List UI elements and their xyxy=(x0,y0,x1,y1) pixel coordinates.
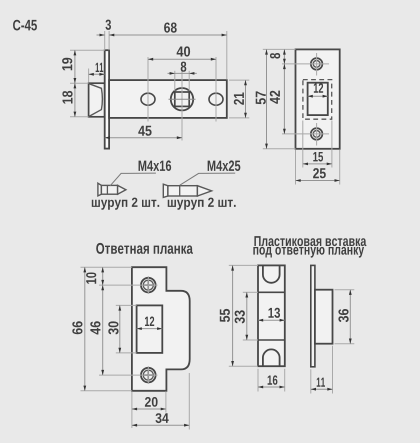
latch body housing xyxy=(109,80,227,118)
dim label 20 xyxy=(145,397,158,407)
label shurup 2 sht right xyxy=(168,198,236,210)
strike top screw hole xyxy=(141,278,156,293)
dim 8 line xyxy=(168,72,197,74)
screw M4x16 tip xyxy=(118,185,126,194)
dim 68 extension line xyxy=(226,31,228,80)
leader line M4x16 xyxy=(110,173,156,186)
right fixing hole (oval) xyxy=(209,93,223,105)
insert divider lower xyxy=(258,339,285,341)
dim 45 line xyxy=(105,137,182,139)
dim 11 line xyxy=(89,73,105,75)
screw M4x25 tip xyxy=(197,186,211,196)
insert side view body box xyxy=(315,290,333,344)
dim 30 line xyxy=(119,305,121,353)
centerline through right hole xyxy=(215,57,217,122)
dim label 8 xyxy=(181,62,187,72)
dim 66 extension lines xyxy=(81,266,132,268)
screw M4x25 head xyxy=(163,184,168,197)
title Plastikovaya vstavka line1 xyxy=(254,236,366,246)
dim label 57 xyxy=(256,91,266,104)
dim 12 arrows (faceplate) xyxy=(308,95,328,97)
dim 10/46 line xyxy=(102,267,104,375)
dim label 13 xyxy=(268,308,280,318)
dim 11 line (insert) xyxy=(311,388,333,390)
screw M4x16 shank xyxy=(101,185,117,194)
insert divider upper xyxy=(258,291,285,293)
dim 36 extension lines xyxy=(335,289,355,291)
insert top notch xyxy=(263,265,280,282)
spindle vertical centerline xyxy=(181,67,183,141)
dim 34 line xyxy=(132,424,189,426)
dim 25 extension lines xyxy=(295,150,297,185)
dim label 18 xyxy=(62,91,72,104)
dim 36 line xyxy=(349,290,351,344)
label shurup 2 sht left xyxy=(92,198,159,210)
dim label 30 xyxy=(108,321,118,334)
dim 16 line xyxy=(258,386,285,388)
dashed cutout region xyxy=(303,80,332,120)
dim 66 line xyxy=(84,267,86,391)
dim 8/42 line (faceplate) xyxy=(283,49,285,133)
dim 57 extension lines xyxy=(263,48,296,50)
dim 55 line xyxy=(232,265,234,366)
dim label 15 xyxy=(313,152,323,162)
spindle horizontal centerline xyxy=(169,98,196,100)
dim 12 arrows (strike) xyxy=(137,328,163,330)
dim label 16 xyxy=(268,375,278,384)
dim 11 extension line xyxy=(88,69,90,83)
dim 30 extension lines xyxy=(116,304,137,306)
screw M4x25 shank xyxy=(168,186,198,196)
dim label 34 xyxy=(156,413,169,423)
insert side view thin plate xyxy=(311,265,315,366)
dim label 45 xyxy=(138,126,151,136)
dim label 10 xyxy=(86,272,96,283)
dim 33 extension lines xyxy=(243,291,258,293)
dim 3 leader+arrow xyxy=(97,34,105,36)
dim 19/18 extension lines xyxy=(70,49,105,51)
dim 15 extension lines xyxy=(302,121,304,168)
label M4x25 xyxy=(208,160,241,171)
strike latch opening xyxy=(137,305,163,353)
dim label 66 xyxy=(72,321,82,334)
dim label 11 xyxy=(96,63,104,72)
dim 13 arrows xyxy=(258,319,285,321)
spindle hub circle xyxy=(171,88,193,110)
faceplate bottom screw hole xyxy=(311,128,323,140)
leader line M4x25 xyxy=(180,173,235,185)
dim label 36 xyxy=(338,309,348,322)
faceplate front view outline xyxy=(296,49,340,148)
dim 57 line xyxy=(266,49,268,148)
title Plastikovaya vstavka line2 xyxy=(253,247,364,258)
dim 21 line xyxy=(245,80,247,118)
dim label 21 xyxy=(234,93,244,105)
latch bolt (beveled) side view xyxy=(89,83,105,117)
dim label 8 (faceplate) xyxy=(270,53,280,59)
bottom hole crosshair xyxy=(316,123,318,146)
left fixing hole (oval) xyxy=(141,93,155,105)
dim label 25 xyxy=(313,168,326,178)
dim 33 line xyxy=(246,292,248,340)
dim label 12 (faceplate) xyxy=(314,83,323,93)
dim 40 line xyxy=(148,58,216,60)
dim label 11 (insert) xyxy=(317,378,325,387)
dim 20 extension lines xyxy=(131,391,133,428)
label M4x16 xyxy=(139,160,172,171)
insert front view outline xyxy=(258,265,285,366)
dim label 42 xyxy=(270,91,280,104)
centerline through left hole xyxy=(147,57,149,122)
dim 20 line xyxy=(132,408,166,410)
dim 16 extension lines xyxy=(257,369,259,392)
faceplate top screw hole xyxy=(311,58,323,70)
latch faceplate edge-on (3mm bar) xyxy=(105,50,109,148)
dim 10/46 extension lines xyxy=(99,284,158,286)
strike plate outline with tab xyxy=(132,267,190,391)
screw M4x16 head xyxy=(98,183,102,196)
dim 21 extension lines xyxy=(229,79,249,81)
dim label 19 xyxy=(62,58,72,70)
latch opening rectangle xyxy=(308,83,328,115)
dim 25 line xyxy=(296,180,340,182)
dim label 40 xyxy=(177,46,191,56)
dim 8 extension lines xyxy=(174,71,176,91)
dim label 3 xyxy=(106,20,112,30)
strike bottom screw hole xyxy=(141,368,156,383)
strike top hole crosshair xyxy=(147,276,149,294)
spindle square hole 8mm xyxy=(175,92,189,106)
dim 11 extension lines (insert) xyxy=(310,369,312,393)
insert bottom notch xyxy=(263,349,280,366)
drawing label C-45 xyxy=(13,20,37,31)
dim label 68 xyxy=(164,22,177,32)
top hole crosshair xyxy=(316,53,318,76)
dim 34 extension line xyxy=(188,373,190,430)
dim 19/18 line xyxy=(74,50,76,117)
dim 55 extension lines xyxy=(229,264,258,266)
dim label 33 xyxy=(235,310,245,323)
dim 3 extension lines xyxy=(104,31,106,50)
title Otvetnaya planka xyxy=(96,243,193,254)
dim 15 line xyxy=(303,163,332,165)
dim label 55 xyxy=(220,309,230,322)
dim label 46 xyxy=(90,321,100,334)
dim label 12 (strike) xyxy=(145,317,154,327)
strike bottom hole crosshair xyxy=(147,366,149,384)
dim 68 line xyxy=(109,34,227,36)
